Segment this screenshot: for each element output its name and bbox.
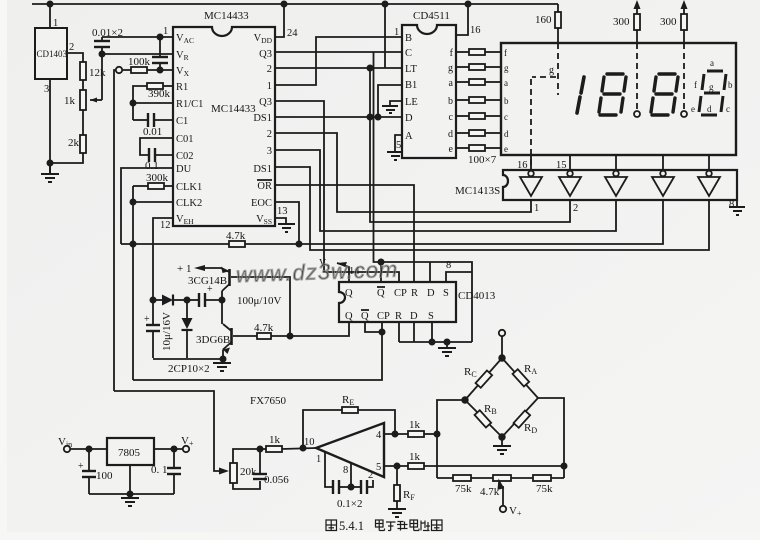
svg-text:CP: CP xyxy=(377,311,390,322)
svg-text:+: + xyxy=(144,314,150,325)
wire feedback riser xyxy=(303,410,342,448)
junction dot bridge right edge xyxy=(561,463,566,468)
diode D1 2CP10 xyxy=(153,299,162,301)
resistor 4.7k base xyxy=(257,333,271,339)
digit 8 (third position) xyxy=(651,74,678,115)
svg-text:100: 100 xyxy=(96,470,113,482)
wire Q0 to CD4013 CP xyxy=(275,101,399,282)
flip-flop U CD4013 xyxy=(339,282,456,322)
resistor 300k xyxy=(164,185,173,187)
svg-text:7805: 7805 xyxy=(118,447,141,459)
wire CLK vertical xyxy=(132,186,134,380)
svg-text:OR: OR xyxy=(257,181,272,192)
svg-text:5: 5 xyxy=(396,140,401,151)
resistor 100x7 row f xyxy=(456,51,469,53)
pin8 ground of MC1413S xyxy=(736,200,738,207)
svg-text:c: c xyxy=(504,112,508,122)
svg-text:e: e xyxy=(691,104,695,114)
svg-text:C1: C1 xyxy=(176,116,188,127)
junction dot EOC on 4.7k line xyxy=(296,241,301,246)
wire DS1 to CD4511 D xyxy=(275,116,402,118)
svg-text:C: C xyxy=(405,48,412,59)
wire 7805 output xyxy=(154,448,183,450)
ground symbol oscillator xyxy=(221,359,223,363)
wire top V+ rail xyxy=(32,3,558,5)
svg-text:0. 1: 0. 1 xyxy=(151,464,168,476)
resistor 100x7 row d xyxy=(456,132,469,134)
supply wire 300 (second) with up arrow xyxy=(683,8,685,43)
junction dot bridge left xyxy=(462,397,468,403)
wire CLK2 stub xyxy=(133,201,173,203)
junction dot feedback node pin10 xyxy=(300,445,305,450)
wire VDD pin24 to top rail xyxy=(275,4,284,37)
wire CD4013 bottom Qbar join CP xyxy=(365,322,382,332)
decimal point circle (digit2) xyxy=(634,111,640,117)
svg-text:MC1413S: MC1413S xyxy=(455,185,500,197)
svg-text:b: b xyxy=(448,96,453,107)
svg-text:4.7k: 4.7k xyxy=(254,322,274,334)
junction dot Qbar riser xyxy=(378,259,383,264)
wire DS4 to MC1413S pin5 xyxy=(275,167,709,250)
wire display to driver in1 xyxy=(530,155,532,170)
svg-text:16: 16 xyxy=(470,25,481,36)
wire LE to ground xyxy=(390,101,402,106)
wire oscillator ground bus xyxy=(153,358,223,360)
junction dot DS1/B1 riser xyxy=(375,114,380,119)
resistor RA xyxy=(513,369,530,386)
inverter buffer 3 xyxy=(605,171,627,196)
bridge diamond wires xyxy=(465,358,538,437)
supply wire 300 (first) with up arrow xyxy=(636,8,638,43)
capacitor C02 0.1 loop xyxy=(140,138,173,155)
resistor 160 with wire from top rail xyxy=(557,4,559,12)
svg-text:0.056: 0.056 xyxy=(264,474,289,486)
svg-text:8: 8 xyxy=(446,260,451,271)
junction dot VAC/cap2 xyxy=(157,34,162,39)
resistor 100x7 row c xyxy=(456,115,469,117)
svg-text:CLK2: CLK2 xyxy=(176,198,202,209)
diode D2 2CP10 vertical xyxy=(186,300,188,318)
svg-text:100μ/10V: 100μ/10V xyxy=(237,295,281,307)
svg-text:d: d xyxy=(448,129,453,140)
svg-text:b: b xyxy=(504,96,509,106)
wire display to driver in4 xyxy=(662,155,664,170)
MC14433 right pin labels xyxy=(251,33,273,226)
digit 4th with segment letters xyxy=(699,71,726,115)
wire CD1403 pin2 xyxy=(67,53,83,62)
wire VX line xyxy=(122,69,173,71)
junction dot diode/cap xyxy=(184,297,189,302)
resistor RC xyxy=(476,370,493,387)
svg-text:300: 300 xyxy=(613,16,630,28)
svg-text:390k: 390k xyxy=(148,88,171,100)
wire collector node down to Q2 collector xyxy=(221,300,223,324)
wire VEE pin12 stub xyxy=(153,218,173,300)
junction dot ground bus xyxy=(444,339,449,344)
junction dot CLK2 xyxy=(130,199,135,204)
svg-text:e: e xyxy=(504,144,508,154)
resistor 100x7 row a xyxy=(456,81,469,83)
svg-text:0.1: 0.1 xyxy=(145,160,159,172)
wire Q2 base to 4.7k xyxy=(233,335,257,337)
resistor RD xyxy=(514,410,531,427)
resistor 12k xyxy=(80,62,86,80)
svg-text:20k: 20k xyxy=(240,466,257,478)
svg-text:CD1403: CD1403 xyxy=(37,49,68,59)
svg-text:B: B xyxy=(405,33,412,44)
digit 1 of display xyxy=(577,77,584,113)
capacitor 0.1x2 left xyxy=(333,480,339,494)
junction dot pin4/RE xyxy=(392,431,397,436)
svg-text:12: 12 xyxy=(160,220,171,231)
svg-text:1: 1 xyxy=(394,27,399,38)
svg-text:a: a xyxy=(710,58,714,68)
svg-text:2: 2 xyxy=(368,470,373,481)
wire Q1 base to right xyxy=(231,277,290,336)
wire Qbar top stub xyxy=(380,262,382,282)
wire Q1 collector down to cap node xyxy=(221,291,223,300)
svg-text:f: f xyxy=(504,48,507,58)
wire op-amp pin2 down xyxy=(367,480,373,487)
svg-text:MC14433: MC14433 xyxy=(204,10,249,22)
op-chip U MC14433 xyxy=(173,27,275,226)
svg-text:S: S xyxy=(428,311,434,322)
capacitor 0.056 xyxy=(253,474,267,479)
resistor 1k pin5 xyxy=(408,463,424,469)
overline on OR xyxy=(257,179,272,181)
display module box xyxy=(501,43,736,155)
svg-text:Q: Q xyxy=(345,288,353,299)
wire Q2/DS1 net down to MC1413S pin2 xyxy=(370,68,570,222)
wire riser to CD4511 B1 xyxy=(378,85,402,117)
wire CD4013 bottom Q to 4.7k base resistor xyxy=(347,322,349,336)
inverter buffer 4 xyxy=(652,171,674,196)
svg-text:2CP10×2: 2CP10×2 xyxy=(168,363,210,375)
resistor RE xyxy=(342,407,358,413)
wire CD1403 pin1 to top rail xyxy=(49,4,51,28)
inverter buffer 2 xyxy=(559,171,581,196)
decoder U CD4511 xyxy=(402,25,456,158)
wire 12k to 1k pot xyxy=(82,80,84,90)
bridge excitation terminal xyxy=(499,330,505,336)
junction dot 7805 gnd xyxy=(127,491,132,496)
wire CD1403 pin3 down xyxy=(49,79,51,163)
svg-text:+ 1: + 1 xyxy=(177,263,191,275)
wire D top riser xyxy=(429,262,431,282)
svg-text:Q: Q xyxy=(377,288,385,299)
svg-text:DU: DU xyxy=(176,164,192,175)
overline marks on Qbar labels xyxy=(377,286,385,288)
junction dot top rail / CD4511 LT riser xyxy=(382,1,387,6)
svg-text:1k: 1k xyxy=(269,434,281,446)
digit 8 (second position) xyxy=(599,74,626,115)
svg-text:4.7k: 4.7k xyxy=(226,230,246,242)
ground symbol A xyxy=(387,152,403,160)
wire terminal to bridge top xyxy=(501,336,503,358)
capacitor C1 0.01 xyxy=(133,119,148,121)
svg-text:D: D xyxy=(410,311,418,322)
wire EOC down to 4.7k line xyxy=(275,202,299,244)
capacitor 10u/16V xyxy=(152,300,154,325)
svg-text:CD4013: CD4013 xyxy=(458,290,496,302)
svg-text:5: 5 xyxy=(376,462,381,473)
capacitor 100 input xyxy=(88,449,90,471)
wire DS2 to MC1413S pin1 xyxy=(275,133,531,212)
output terminal V+ xyxy=(183,446,189,452)
svg-text:1k: 1k xyxy=(409,419,421,431)
junction dot base net xyxy=(287,333,292,338)
junction dot top rail / CD4511 pin16 riser xyxy=(465,1,470,6)
wire bridge bottom row xyxy=(437,477,564,479)
junction dot R1/C1 xyxy=(130,100,135,105)
svg-text:2: 2 xyxy=(267,129,272,140)
svg-text:0.1×2: 0.1×2 xyxy=(337,498,362,510)
ground symbol CD4013 xyxy=(446,342,448,348)
svg-text:2k: 2k xyxy=(68,137,80,149)
wiper arrow of 1k pot from 0.01 cap node xyxy=(90,99,102,101)
svg-text:75k: 75k xyxy=(455,483,472,495)
svg-text:1: 1 xyxy=(267,81,272,92)
wire bridge left to rectangle xyxy=(437,400,465,478)
wire 20k bottom loop xyxy=(233,481,260,489)
resistor 100x7 row e xyxy=(456,147,469,149)
svg-text:300: 300 xyxy=(660,16,677,28)
wire display to driver in3 xyxy=(615,155,617,170)
wire pin5 stub xyxy=(384,465,408,467)
junction dot 100 cap xyxy=(86,446,91,451)
wire bridge right to rectangle xyxy=(538,398,564,478)
wire ground bus under CD4013 xyxy=(399,341,472,343)
resistor 100x7 row g xyxy=(456,66,469,68)
svg-text:c: c xyxy=(726,104,730,114)
svg-text:Q3: Q3 xyxy=(259,97,272,108)
capacitor 100u/10V xyxy=(187,299,199,301)
svg-text:1: 1 xyxy=(53,18,58,29)
svg-text:g: g xyxy=(709,82,714,92)
resistor 100k xyxy=(131,67,147,73)
wire CD4013 bottom D to ground bus xyxy=(413,322,415,342)
wire CD4013 bottom R to ground bus xyxy=(398,322,400,342)
resistor 1k input xyxy=(260,448,266,450)
caption pseudo CJK glyphs xyxy=(326,520,442,531)
resistor 1k pin4 xyxy=(408,431,424,437)
svg-text:10: 10 xyxy=(304,437,315,448)
junction dot 0.1 cap xyxy=(171,446,176,451)
wire Q2 emitter to ground bus xyxy=(222,350,224,360)
svg-text:R: R xyxy=(411,288,418,299)
wire OR to CD4013 R xyxy=(275,185,414,282)
resistor 75k left xyxy=(453,475,471,481)
svg-text:f: f xyxy=(694,80,697,90)
svg-text:C02: C02 xyxy=(176,151,194,162)
svg-text:160: 160 xyxy=(535,14,552,26)
svg-text:+: + xyxy=(207,284,213,295)
svg-text:100×7: 100×7 xyxy=(468,154,497,166)
svg-text:1: 1 xyxy=(316,454,321,465)
wire VAC line xyxy=(102,36,173,38)
svg-text:5.4.1: 5.4.1 xyxy=(339,519,364,533)
svg-text:75k: 75k xyxy=(536,483,553,495)
svg-text:d: d xyxy=(504,129,509,139)
svg-text:100k: 100k xyxy=(128,56,151,68)
open terminal circle on VX xyxy=(116,67,122,73)
svg-text:24: 24 xyxy=(287,28,298,39)
dashed wire 160 into display xyxy=(557,43,559,95)
wire VX terminal to analog rail xyxy=(114,70,116,391)
svg-text:3: 3 xyxy=(267,146,272,157)
potentiometer 20k xyxy=(230,463,237,483)
junction dot CP bottom xyxy=(379,329,384,334)
svg-text:b: b xyxy=(728,80,733,90)
svg-text:DS1: DS1 xyxy=(253,164,272,175)
resistor RF vertical xyxy=(396,466,398,485)
svg-text:a: a xyxy=(449,78,454,89)
svg-text:13: 13 xyxy=(277,206,288,217)
svg-text:+: + xyxy=(78,461,84,472)
ground symbol RF xyxy=(388,509,406,517)
wire VR line xyxy=(102,53,173,55)
junction dot pin5/RF xyxy=(394,463,399,468)
junction dot VEE/diode xyxy=(150,297,155,302)
svg-text:D: D xyxy=(405,113,413,124)
potentiometer 4.7k bridge xyxy=(493,475,511,481)
wire 1k to 2k xyxy=(82,110,84,135)
wire display to driver in2 xyxy=(569,155,571,170)
inverter buffer 5 xyxy=(698,171,720,196)
svg-text:DS1: DS1 xyxy=(253,113,272,124)
svg-text:LE: LE xyxy=(405,97,418,108)
svg-text:8: 8 xyxy=(729,199,734,210)
wire 20k top to amp input node xyxy=(233,449,260,463)
svg-text:2: 2 xyxy=(267,64,272,75)
svg-text:10μ/16V: 10μ/16V xyxy=(161,312,173,351)
svg-text:R: R xyxy=(395,311,402,322)
driver U MC1413S box xyxy=(503,170,737,200)
svg-text:LT: LT xyxy=(405,64,417,75)
svg-text:1: 1 xyxy=(163,26,168,37)
junction dot Q2/DS1 riser xyxy=(367,65,372,70)
wire CD4013 bottom S to ground bus xyxy=(431,322,433,342)
junction dot top rail / CD1403 pin1 xyxy=(47,1,52,6)
svg-text:FX7650: FX7650 xyxy=(250,395,287,407)
svg-text:A: A xyxy=(405,131,413,142)
svg-text:15: 15 xyxy=(556,160,567,171)
svg-text:B1: B1 xyxy=(405,80,417,91)
wire R1/C1 xyxy=(133,102,173,104)
dashed wire 300 first into display xyxy=(636,43,638,111)
dashed wire 300 second into display xyxy=(683,43,685,111)
junction dot VR/cap1 xyxy=(99,51,104,56)
potentiometer 1k xyxy=(80,90,86,110)
wire branch C line down to CD4013 Qbar xyxy=(374,52,382,262)
wire analog input rail to 20k wiper xyxy=(114,391,226,471)
wire CD4511 pin16 to top rail xyxy=(456,4,468,35)
wire cap1 node down to 1k wiper xyxy=(101,54,103,100)
ground symbol VSS xyxy=(278,224,295,232)
ground symbol CD1403 xyxy=(41,163,59,182)
dashed wire digit1 cathode down to MC1413S pin16 xyxy=(530,79,532,170)
resistor 390k xyxy=(163,85,173,87)
junction dot cap2/VX xyxy=(157,67,162,72)
wire pin14 V+ arrow xyxy=(337,263,349,282)
resistor RB xyxy=(475,410,492,427)
wire Q1 to CD4511 B xyxy=(275,37,402,85)
resistor 100x7 row b xyxy=(456,99,469,101)
svg-text:1k: 1k xyxy=(409,451,421,463)
wire regulator ground bus xyxy=(89,493,174,495)
wire Q2 to CD4511 LT xyxy=(275,67,402,69)
resistor 4.7k xyxy=(229,241,245,247)
wire DU line going down xyxy=(121,168,173,244)
op-amp U FX7650 triangle xyxy=(316,423,384,477)
svg-text:Q: Q xyxy=(361,311,369,322)
capacitor 0.1 output xyxy=(173,449,175,468)
wire DS3 to MC1413S pin3 xyxy=(275,150,616,231)
junction dot caps mid xyxy=(348,484,353,489)
MC14433 left pin labels xyxy=(176,33,203,226)
wire 2k bottom to ground xyxy=(50,153,83,163)
wire 7805 gnd pin xyxy=(129,465,131,494)
caption figure number xyxy=(339,519,364,533)
wire Q3 to CD4511 C xyxy=(275,51,402,53)
junction dot top rail / MC14433 VDD xyxy=(281,1,286,6)
svg-text:CP: CP xyxy=(394,288,407,299)
svg-text:1: 1 xyxy=(534,203,539,214)
svg-text:S: S xyxy=(443,288,449,299)
svg-text:12k: 12k xyxy=(89,67,106,79)
wire DU/4.7k line to MC1413S pin4 xyxy=(121,200,663,244)
ground symbol bridge bottom xyxy=(501,437,503,446)
junction dot pin3/ground xyxy=(47,160,52,165)
svg-text:4.7k: 4.7k xyxy=(480,486,500,498)
svg-text:0.01: 0.01 xyxy=(143,126,162,138)
oscillator: rail +1 with arrow xyxy=(200,267,221,269)
wire op-amp pin8 down xyxy=(339,486,351,488)
wire Vin to 7805 xyxy=(70,448,107,450)
junction dot collector node xyxy=(219,297,224,302)
svg-text:Q: Q xyxy=(345,311,353,322)
svg-text:a: a xyxy=(504,78,508,88)
wire VSS pin13 to ground xyxy=(275,218,286,224)
svg-text:g: g xyxy=(549,65,554,76)
svg-text:d: d xyxy=(707,104,712,114)
svg-text:D: D xyxy=(427,288,435,299)
svg-text:g: g xyxy=(504,63,509,73)
svg-text:CLK1: CLK1 xyxy=(176,182,202,193)
voltage reference U CD1403 xyxy=(35,28,67,79)
inverter buffer 1 xyxy=(520,171,542,196)
svg-text:16: 16 xyxy=(517,160,528,171)
svg-text:3: 3 xyxy=(44,84,49,95)
junction dot amp input node xyxy=(257,446,262,451)
svg-text:c: c xyxy=(449,112,454,123)
svg-text:CD4511: CD4511 xyxy=(413,10,450,22)
svg-text:R1/C1: R1/C1 xyxy=(176,99,203,110)
resistor 2k xyxy=(80,135,86,153)
wire D and S top feed from Qbar node xyxy=(381,262,472,342)
wire display to driver in5 xyxy=(708,155,710,170)
wire LT riser to top rail xyxy=(384,4,386,68)
junction dot DS1 line riser xyxy=(367,114,372,119)
ground symbol 7805 xyxy=(129,494,131,498)
svg-text:1k: 1k xyxy=(64,95,76,107)
wiper arrow 4.7k from V+ terminal xyxy=(502,486,504,506)
junction dot bridge top xyxy=(499,355,505,361)
junction dot Q2 emitter xyxy=(220,356,225,361)
ground symbol LE xyxy=(382,106,398,113)
svg-text:EOC: EOC xyxy=(251,198,272,209)
resistor 75k right xyxy=(533,475,551,481)
